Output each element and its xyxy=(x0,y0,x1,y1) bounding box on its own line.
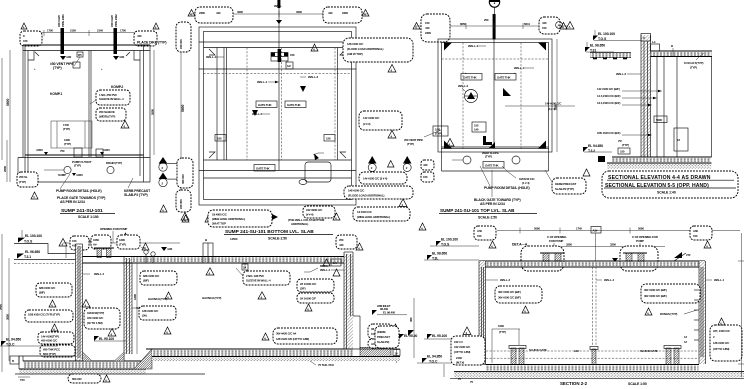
svg-text:1#8 #100 C/C: 1#8 #100 C/C xyxy=(348,189,365,193)
svg-text:(TYP): (TYP) xyxy=(74,164,81,168)
svg-text:PUMP ROOM DETAIL (HOLE): PUMP ROOM DETAIL (HOLE) xyxy=(56,189,102,193)
svg-text:18 #900 C/C: 18 #900 C/C xyxy=(212,213,228,217)
cloud top-left xyxy=(195,7,233,23)
svg-text:1##: 1## xyxy=(333,261,338,265)
svg-text:(TYP): (TYP) xyxy=(407,142,414,146)
svg-text:5600: 5600 xyxy=(181,105,185,112)
svg-text:#4# #100 C/C: #4# #100 C/C xyxy=(454,345,471,349)
1200 dim at inner wall xyxy=(136,263,138,354)
svg-text:KOMP.2: KOMP.2 xyxy=(111,85,123,89)
svg-text:14 #,#100 C/C (B/F): 14 #,#100 C/C (B/F) xyxy=(597,94,621,98)
svg-text:AS PER IN 1234: AS PER IN 1234 xyxy=(60,200,85,204)
cloud sleeve note xyxy=(96,90,130,105)
middle column: cloud 5 xyxy=(353,207,410,221)
balloon top xyxy=(489,0,499,7)
svg-text:150: 150 xyxy=(217,137,222,141)
svg-text:WALL-2: WALL-2 xyxy=(500,278,510,282)
svg-text:SCALE-1:50: SCALE-1:50 xyxy=(268,237,287,241)
svg-text:5600: 5600 xyxy=(6,99,10,106)
svg-text:30# ##20 C/C A#: 30# ##20 C/C A# xyxy=(276,332,297,336)
left outer dim xyxy=(1,234,3,372)
svg-text:WALL-2: WALL-2 xyxy=(616,72,626,76)
dark L mid xyxy=(483,136,492,145)
svg-text:3050: 3050 xyxy=(6,314,10,320)
pump gate posts in pit xyxy=(94,247,114,249)
svg-text:14# #100 C/C: 14# #100 C/C xyxy=(363,116,380,120)
sump circles xyxy=(64,166,71,173)
sleeve cloud mid xyxy=(243,271,290,285)
rev triangle top xyxy=(122,233,129,240)
svg-text:(KERB: (KERB xyxy=(377,330,386,334)
rev triangle mid xyxy=(121,121,129,129)
inner rect xyxy=(674,128,688,151)
svg-text:SCALE 1:50: SCALE 1:50 xyxy=(628,382,647,386)
cloud top-right xyxy=(690,226,712,240)
mid post xyxy=(592,349,596,365)
weir slope note xyxy=(489,142,495,148)
svg-text:GATE THK: GATE THK xyxy=(463,76,477,80)
svg-text:30# #100 C/C (B/F): 30# #100 C/C (B/F) xyxy=(498,296,521,300)
svg-text:2 NO. 1#8 PVC: 2 NO. 1#8 PVC xyxy=(246,274,265,278)
svg-text:1#8 #120 C/D (UP TO 1.8M): 1#8 #120 C/D (UP TO 1.8M) xyxy=(276,337,309,341)
left cloud bottom 2 xyxy=(176,190,191,212)
svg-text:EL 100.100: EL 100.100 xyxy=(25,234,42,238)
svg-text:PRECAST: PRECAST xyxy=(377,335,390,339)
svg-text:600 24#: 600 24# xyxy=(72,377,82,381)
triangle in pit xyxy=(82,300,90,308)
small tag xyxy=(286,62,293,69)
svg-text:14# #100 C/C (3 # 4): 14# #100 C/C (3 # 4) xyxy=(363,177,387,181)
svg-text:150: 150 xyxy=(326,137,331,141)
svg-text:150: 150 xyxy=(425,21,430,25)
top right cloud xyxy=(336,235,357,249)
svg-text:HAUNCH (TYP): HAUNCH (TYP) xyxy=(202,296,221,300)
svg-text:13 #,#100 C/C (B/F): 13 #,#100 C/C (B/F) xyxy=(597,101,621,105)
gate assembly 1 xyxy=(543,253,549,267)
svg-text:EL 94.650: EL 94.650 xyxy=(588,144,603,148)
verticals below slab xyxy=(656,57,658,158)
corner notches xyxy=(28,51,34,61)
svg-text:WALL-1: WALL-1 xyxy=(514,66,524,70)
corner angle marks xyxy=(209,49,215,55)
arrow at big cloud xyxy=(272,214,278,220)
section markers pair xyxy=(368,156,377,164)
svg-text:KOMP.1: KOMP.1 xyxy=(50,92,62,96)
triangle left of top clouds xyxy=(59,239,67,247)
svg-text:GATE THK: GATE THK xyxy=(256,167,270,171)
top slab xyxy=(651,50,713,52)
EL 94.650 xyxy=(1,341,6,346)
svg-text:EL 94.650: EL 94.650 xyxy=(6,338,21,342)
svg-text:(TYP): (TYP) xyxy=(63,127,70,131)
svg-text:SUMP 241-SU-101 TOP LVL. SLAB: SUMP 241-SU-101 TOP LVL. SLAB xyxy=(440,208,515,213)
svg-text:##0 #100 C/C: ##0 #100 C/C xyxy=(87,316,104,320)
svg-text:440: 440 xyxy=(423,163,428,167)
wall notch bottom xyxy=(74,148,82,157)
svg-text:A#: A# xyxy=(93,243,97,247)
svg-text:8 #10 ALT.(TYP): 8 #10 ALT.(TYP) xyxy=(684,61,703,65)
left clouds column xyxy=(36,283,72,297)
rev triangle bottom xyxy=(31,192,38,199)
svg-text:(TYP): (TYP) xyxy=(690,66,697,70)
svg-text:WALL-2: WALL-2 xyxy=(458,84,468,88)
svg-text:(B/F): (B/F) xyxy=(39,291,45,295)
EL 100.100 left xyxy=(14,244,76,254)
far right dim xyxy=(741,233,743,377)
svg-text:B: B xyxy=(671,44,673,48)
svg-text:2100: 2100 xyxy=(456,356,462,360)
svg-text:WALL-1: WALL-1 xyxy=(714,278,724,282)
svg-text:#50 THK PCC: #50 THK PCC xyxy=(43,348,61,352)
right wall xyxy=(139,51,141,177)
left wall xyxy=(24,45,26,182)
svg-text:EL 98.650: EL 98.650 xyxy=(432,252,447,256)
svg-text:440: 440 xyxy=(425,26,430,30)
svg-text:3200: 3200 xyxy=(237,10,243,14)
svg-text:PUMP ROOM DETAIL (HOLE): PUMP ROOM DETAIL (HOLE) xyxy=(484,186,530,190)
svg-text:PIPE 2402: PIPE 2402 xyxy=(114,14,118,27)
right cloud at step xyxy=(368,324,393,339)
svg-text:#4# #900 C/C: #4# #900 C/C xyxy=(306,208,323,212)
rev triangle left xyxy=(188,10,195,17)
svg-text:ADDITIONAL): ADDITIONAL) xyxy=(291,222,308,226)
svg-text:U: U xyxy=(643,36,645,40)
right dim text xyxy=(505,105,575,107)
svg-text:OPENING FOR PUMP: OPENING FOR PUMP xyxy=(100,227,127,231)
svg-text:HAUNCH (TYP): HAUNCH (TYP) xyxy=(148,297,167,301)
svg-text:#7#: #7# xyxy=(686,253,691,257)
triangle near title xyxy=(160,205,167,212)
gate cloud 1 xyxy=(521,246,564,271)
rev triangles xyxy=(413,23,420,30)
clouds right-mid xyxy=(297,279,334,292)
svg-text:1200: 1200 xyxy=(133,294,137,300)
cloud top-left xyxy=(20,31,42,46)
svg-text:(AM #5 TOP): (AM #5 TOP) xyxy=(347,52,363,56)
svg-text:DET.A—A: DET.A—A xyxy=(512,243,528,247)
section marks A xyxy=(556,22,563,29)
svg-text:FOR PUMP: FOR PUMP xyxy=(549,239,563,243)
svg-text:5500: 5500 xyxy=(151,109,155,115)
svg-text:150: 150 xyxy=(542,26,547,30)
top dim line xyxy=(497,230,740,232)
svg-text:14# #100 C/C (B/F): 14# #100 C/C (B/F) xyxy=(597,87,620,91)
svg-text:2M AT TOP: 2M AT TOP xyxy=(212,222,226,226)
svg-text:SUMP: SUMP xyxy=(58,173,66,177)
far left extension line xyxy=(1,58,3,160)
top dashed line inside xyxy=(442,58,549,60)
svg-text:#50: #50 xyxy=(339,238,344,242)
svg-text:8#8 #100 C/C: 8#8 #100 C/C xyxy=(39,286,56,290)
second dim row xyxy=(535,246,665,248)
kerb hatch block on slab ext xyxy=(360,347,391,356)
bottom slab xyxy=(612,156,712,158)
svg-text:##7, #120 C/C: ##7, #120 C/C xyxy=(713,329,731,333)
svg-text:Ld: Ld xyxy=(652,40,656,44)
svg-text:R5: R5 xyxy=(78,53,82,57)
bottom center cloud xyxy=(273,328,337,344)
svg-text:30# #100 C/C (B/F): 30# #100 C/C (B/F) xyxy=(498,290,521,294)
svg-text:#50 #100 C/C: #50 #100 C/C xyxy=(41,339,58,343)
left cloud bottom xyxy=(177,158,193,188)
svg-text:1700: 1700 xyxy=(120,29,126,33)
dashed verticals xyxy=(246,48,248,161)
pit floor slab xyxy=(23,360,146,362)
rung marks on right wall xyxy=(694,289,699,291)
EL 98.650 xyxy=(586,51,614,53)
top dim line xyxy=(415,25,568,27)
svg-text:5450: 5450 xyxy=(0,304,3,310)
svg-text:1/2: 1/2 xyxy=(287,64,291,68)
svg-text:3200: 3200 xyxy=(610,243,616,247)
svg-text:8#8 #100 C/C: 8#8 #100 C/C xyxy=(143,274,160,278)
right wall step xyxy=(353,315,360,317)
gate thk boxes xyxy=(256,101,277,108)
EL 100.100 xyxy=(436,241,441,246)
long floor slab xyxy=(146,348,353,350)
svg-text:DRAIN (TYP): DRAIN (TYP) xyxy=(106,161,122,165)
svg-text:(# # #): (# # #) xyxy=(363,122,371,126)
pump pit dashed outline xyxy=(51,121,92,148)
svg-text:150: 150 xyxy=(477,234,482,238)
svg-text:4.80: 4.80 xyxy=(167,247,173,251)
svg-text:(TYP): (TYP) xyxy=(64,142,71,146)
svg-text:150: 150 xyxy=(620,150,625,154)
kerb cloud right xyxy=(552,178,586,194)
middle column: cloud 1 xyxy=(343,38,413,62)
svg-text:PIPE 2401: PIPE 2401 xyxy=(61,14,65,27)
cloud top-left xyxy=(474,226,496,240)
svg-text:WALL-4: WALL-4 xyxy=(604,278,614,282)
svg-text:WALL-4: WALL-4 xyxy=(94,272,104,276)
EL 95.20 xyxy=(399,334,404,339)
svg-text:4.80: 4.80 xyxy=(66,55,72,59)
svg-text:PLACE DIKE (TYP): PLACE DIKE (TYP) xyxy=(137,41,166,45)
svg-text:WALL-4: WALL-4 xyxy=(206,55,216,59)
left wall xyxy=(479,261,486,364)
svg-text:150: 150 xyxy=(423,175,428,179)
middle column: cloud 4 xyxy=(344,186,413,199)
outer rect xyxy=(199,27,356,205)
EL 95.100 center xyxy=(94,336,99,341)
svg-text:EL 98.650: EL 98.650 xyxy=(590,44,605,48)
svg-text:M## (TYP): M## (TYP) xyxy=(43,352,56,356)
small tag below slab xyxy=(244,263,246,269)
svg-text:2# 1#100 C/F: 2# 1#100 C/F xyxy=(300,297,316,301)
inner left dim xyxy=(8,258,10,361)
gate cloud 2 xyxy=(620,246,658,271)
svg-text:(FLOOD LOAD ADDITIONAL): (FLOOD LOAD ADDITIONAL) xyxy=(347,47,384,51)
svg-text:(TYP): (TYP) xyxy=(485,155,492,159)
svg-text:1200: 1200 xyxy=(119,238,125,242)
cloud top-right xyxy=(539,17,560,34)
svg-text:440: 440 xyxy=(216,11,221,15)
svg-text:150: 150 xyxy=(23,39,28,43)
svg-text:1700: 1700 xyxy=(47,29,53,33)
svg-text:(FLOOD LOAD ADDITIONAL): (FLOOD LOAD ADDITIONAL) xyxy=(348,194,385,198)
right dim line xyxy=(153,50,155,155)
svg-text:4.800: 4.800 xyxy=(36,148,43,152)
EL 96.650 left xyxy=(14,259,76,261)
mid horizontal xyxy=(199,68,356,70)
svg-text:(B/F): (B/F) xyxy=(143,279,149,283)
cloud top-right xyxy=(134,31,157,46)
center cloud xyxy=(84,308,120,329)
gate thk boxes xyxy=(461,74,482,81)
right-of-pit clouds xyxy=(140,271,177,285)
svg-text:T.31: T.31 xyxy=(590,49,596,53)
bottom inner band xyxy=(204,159,352,161)
top slab long xyxy=(83,256,345,258)
svg-text:WALL-4: WALL-4 xyxy=(320,268,330,272)
svg-text:(3#): (3#) xyxy=(142,314,147,318)
svg-text:SLEEVE IN WALL-4: SLEEVE IN WALL-4 xyxy=(246,279,271,283)
svg-text:KERB PRECAST: KERB PRECAST xyxy=(555,182,577,186)
bottom slab xyxy=(486,364,700,366)
svg-text:10/8 #100 C/C (TYP) (TYP): 10/8 #100 C/C (TYP) (TYP) xyxy=(28,313,60,317)
small tag R5 xyxy=(77,52,83,57)
svg-text:8050: 8050 xyxy=(460,22,466,26)
svg-text:SECTION 2-2: SECTION 2-2 xyxy=(560,381,588,386)
svg-text:T.3.1: T.3.1 xyxy=(24,255,31,259)
A3# box at interior wall top xyxy=(595,233,597,261)
svg-text:5090: 5090 xyxy=(638,227,644,231)
svg-text:#50 SL: #50 SL xyxy=(19,175,28,179)
svg-text:EL 100.100: EL 100.100 xyxy=(441,238,458,242)
svg-text:(# # #): (# # #) xyxy=(306,213,314,217)
cloud right xyxy=(641,284,700,303)
dashed grade line xyxy=(14,263,76,265)
svg-text:A50: A50 xyxy=(477,229,482,233)
svg-text:1745: 1745 xyxy=(576,227,582,231)
svg-text:#4# # #: #4# # # xyxy=(454,340,463,344)
left dim xyxy=(180,27,182,205)
svg-text:SLAB-P2): SLAB-P2) xyxy=(377,340,389,344)
svg-text:300 150: 300 150 xyxy=(181,174,185,184)
pipe 2 with riser text xyxy=(114,28,118,54)
svg-text:EL 95.100: EL 95.100 xyxy=(99,337,114,341)
svg-text:EL 95.100: EL 95.100 xyxy=(432,334,447,338)
svg-text:SUMP 241-SU-101 BOTTOM LVL. SL: SUMP 241-SU-101 BOTTOM LVL. SLAB xyxy=(225,229,314,235)
left cloud top xyxy=(176,22,191,52)
center pipe xyxy=(278,8,280,170)
svg-text:SLAB-P2 (TYP): SLAB-P2 (TYP) xyxy=(555,187,574,191)
svg-text:5000: 5000 xyxy=(656,118,662,122)
5000 box xyxy=(654,116,667,123)
svg-text:750: 750 xyxy=(60,149,65,153)
weir box on pipe xyxy=(271,53,288,62)
inner wall vertical xyxy=(223,48,225,161)
svg-text:(M.T.#): (M.T.#) xyxy=(456,361,464,365)
svg-text:SUMP 241-SU-101: SUMP 241-SU-101 xyxy=(61,208,103,214)
svg-text:2# 1#100 C/C: 2# 1#100 C/C xyxy=(300,282,317,286)
svg-text:(TYP): (TYP) xyxy=(622,143,629,147)
svg-text:2140: 2140 xyxy=(97,29,103,33)
leader notes below plan xyxy=(60,174,70,189)
svg-text:RUNGS (TYP): RUNGS (TYP) xyxy=(660,312,677,316)
inner offset rect xyxy=(204,32,352,200)
bottom cloud xyxy=(208,210,272,227)
svg-text:GATE THK: GATE THK xyxy=(485,164,499,168)
svg-text:PUMP: PUMP xyxy=(636,239,644,243)
1000 TYP dim xyxy=(492,328,520,330)
svg-text:GATE THK: GATE THK xyxy=(497,76,511,80)
small tags left of plan xyxy=(421,160,434,170)
svg-text:EL 96.400: EL 96.400 xyxy=(383,311,396,315)
svg-text:(TYP): (TYP) xyxy=(499,330,506,334)
svg-text:"A": "A" xyxy=(141,246,146,250)
left dim line xyxy=(9,50,11,182)
svg-text:1#8 #100 C/C: 1#8 #100 C/C xyxy=(347,42,364,46)
svg-text:WALL-3: WALL-3 xyxy=(308,75,318,79)
svg-text:(WEB LENG ADDITIONAL): (WEB LENG ADDITIONAL) xyxy=(357,215,390,219)
left bottom block xyxy=(454,338,485,365)
svg-text:(TYP): (TYP) xyxy=(119,243,126,247)
svg-text:WALL-4: WALL-4 xyxy=(468,44,478,48)
svg-text:13 #100 C/C: 13 #100 C/C xyxy=(357,210,373,214)
outer rect xyxy=(438,39,552,152)
svg-text:5090: 5090 xyxy=(534,227,540,231)
section markers right of plan xyxy=(159,163,167,171)
bottom left triangles xyxy=(182,215,189,222)
bottom wall band xyxy=(25,154,144,156)
soil under long slab xyxy=(152,357,400,361)
oval bottom xyxy=(68,374,101,383)
svg-text:1PE #100 C/C (B/F): 1PE #100 C/C (B/F) xyxy=(597,131,621,135)
EL 94.650 xyxy=(584,151,612,153)
small boxes left xyxy=(433,126,448,136)
middle column: cloud 2 xyxy=(359,111,402,130)
cloud left xyxy=(495,286,542,303)
pit fillet haunches xyxy=(83,352,93,361)
svg-text:6041: 6041 xyxy=(524,22,530,26)
EL 100.100 xyxy=(594,40,641,42)
middle column: cloud 3 xyxy=(359,172,407,184)
gate chamber rounded outline xyxy=(305,162,331,182)
svg-text:440: 440 xyxy=(542,21,547,25)
svg-text:EL 95.20: EL 95.20 xyxy=(404,334,417,338)
top slab xyxy=(479,260,705,262)
svg-text:A3#: A3# xyxy=(593,229,598,233)
bottom band xyxy=(442,146,549,148)
svg-text:30# #100 C/C (B/F): 30# #100 C/C (B/F) xyxy=(644,288,667,292)
svg-text:DET.A: DET.A xyxy=(320,264,329,268)
svg-text:150: 150 xyxy=(693,234,698,238)
pit inner wall xyxy=(124,258,132,354)
svg-text:440: 440 xyxy=(137,34,142,38)
soil under pit xyxy=(19,370,146,375)
svg-text:EL 96.650: EL 96.650 xyxy=(25,250,40,254)
top dim line xyxy=(25,32,157,34)
svg-text:T.O.S: T.O.S xyxy=(24,240,33,244)
svg-text:SLAB-P2 (TYP): SLAB-P2 (TYP) xyxy=(124,193,148,197)
rev triangle right xyxy=(153,23,159,29)
svg-text:1#8 #100 C/C: 1#8 #100 C/C xyxy=(713,341,730,345)
svg-text:4.80: 4.80 xyxy=(119,55,125,59)
sluice gate 2 xyxy=(666,348,671,365)
svg-text:(UP TO 1.8M): (UP TO 1.8M) xyxy=(454,350,470,354)
arrows on walls xyxy=(252,110,258,116)
cloud bottom-left xyxy=(17,172,38,187)
main wall xyxy=(641,35,651,157)
bottom tick xyxy=(18,376,30,378)
soil rows xyxy=(454,372,744,378)
svg-text:SLUICE GATE: SLUICE GATE xyxy=(529,348,547,352)
rev triangle left xyxy=(21,23,27,29)
B marker on slab xyxy=(203,243,213,263)
vertical dim between sections xyxy=(413,298,415,358)
cloud top-left xyxy=(421,14,450,42)
